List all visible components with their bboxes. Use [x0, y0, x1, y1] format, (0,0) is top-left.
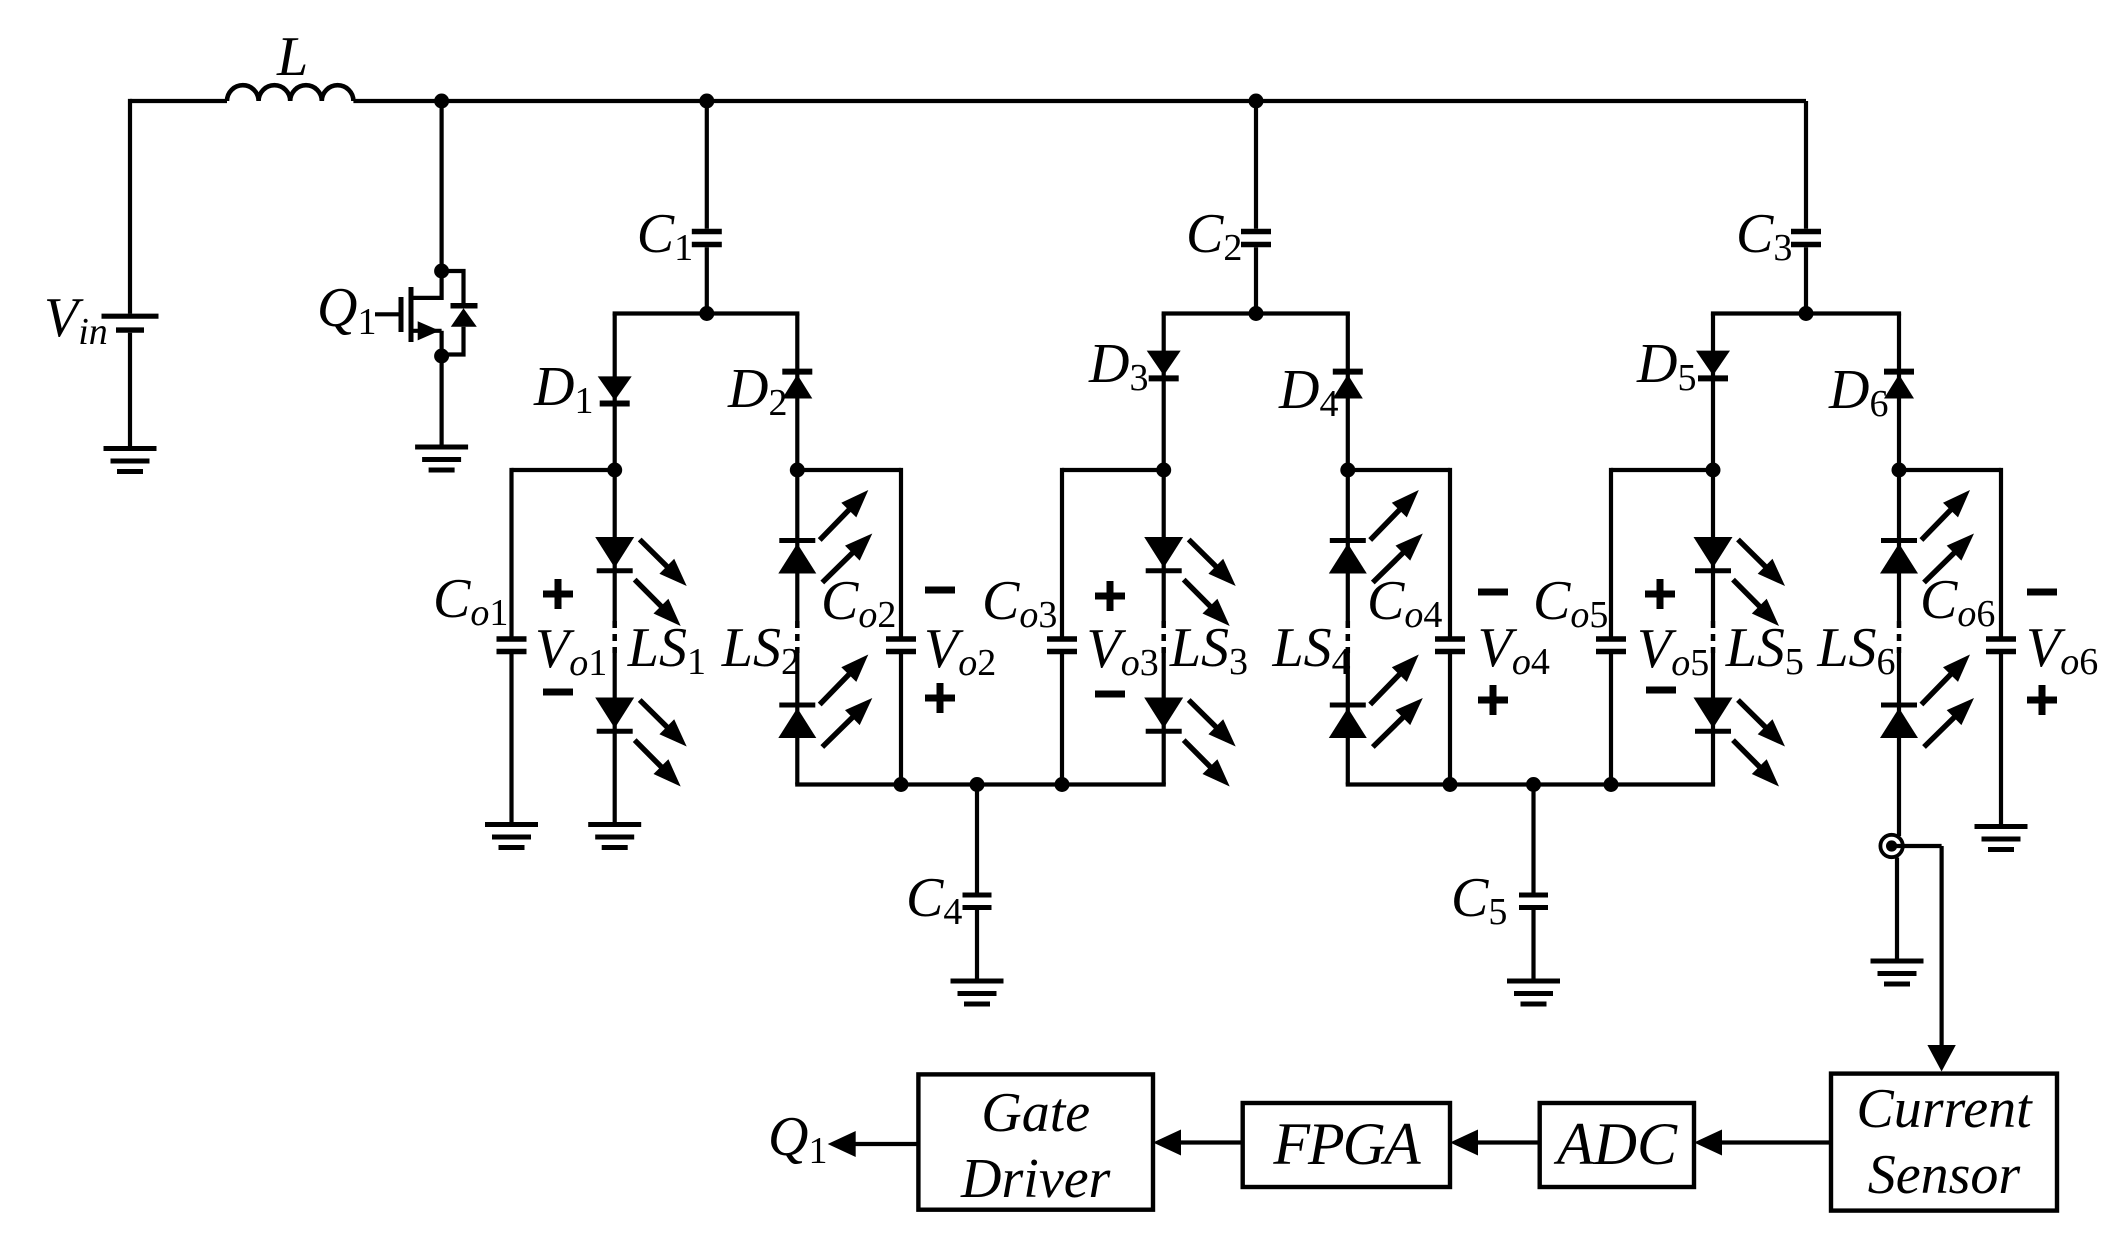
node Co4 bottom — [1443, 777, 1458, 792]
capacitor Co3 — [1047, 636, 1077, 642]
wire stub to Co2 — [797, 468, 901, 472]
node D5 output junction — [1706, 463, 1721, 478]
wire C1 bottom vertical — [705, 247, 709, 313]
ground LS1 — [588, 822, 641, 827]
wire Co6 vertical bottom — [1999, 652, 2003, 827]
LED LS5 lower — [1694, 698, 1733, 729]
capacitor C2 — [1241, 229, 1271, 235]
diode D2 — [782, 369, 812, 375]
node C5 tap — [1526, 777, 1541, 792]
wire stub to Co1 — [512, 468, 615, 472]
label Vo5 plus — [1645, 591, 1675, 598]
node D6 output junction — [1892, 463, 1907, 478]
label Vo2 plus — [925, 695, 955, 702]
wire LS3 string — [1162, 470, 1166, 621]
wire D6 branch vertical — [1897, 314, 1901, 471]
diode D1 — [598, 376, 632, 400]
node top junction C2 — [1249, 94, 1264, 109]
capacitor Co4 — [1435, 636, 1465, 642]
ground Q1 — [415, 445, 468, 450]
diode D6 — [1884, 369, 1914, 375]
wire C2 bottom vertical — [1254, 247, 1258, 313]
transistor Q1 — [375, 271, 478, 356]
LED LS1 upper — [595, 537, 634, 568]
node top junction Q1 — [434, 94, 449, 109]
wire D4 branch vertical — [1346, 314, 1350, 471]
wire D2 branch vertical — [795, 314, 799, 471]
wire stub to Co5 — [1611, 468, 1713, 472]
label Vo4 minus — [1478, 589, 1508, 596]
wire C3 bottom vertical — [1804, 247, 1808, 313]
node C2 bottom junction — [1249, 306, 1264, 321]
wire LS6 string — [1897, 470, 1901, 621]
svg-text:Sensor: Sensor — [1868, 1144, 2021, 1206]
wire bottom rail right — [1346, 782, 1715, 786]
block ADC box — [1540, 1103, 1694, 1187]
wire Co2 vertical bottom — [899, 652, 903, 785]
block Gate Driver box — [918, 1074, 1153, 1209]
label Vo3 minus — [1095, 691, 1125, 698]
ground Co6 — [1975, 824, 2028, 829]
capacitor C5 — [1519, 893, 1548, 898]
current sensor pickup circle — [1880, 835, 1902, 857]
node C3 bottom junction — [1799, 306, 1814, 321]
wire Co3 vertical top — [1060, 468, 1064, 639]
wire Vin vertical top — [128, 99, 132, 314]
svg-text:L: L — [276, 26, 308, 88]
node Q1 drain — [434, 264, 449, 279]
capacitor C1 — [692, 229, 722, 235]
wire Co3 vertical bottom — [1060, 652, 1064, 785]
label Vo3 plus — [1095, 593, 1125, 600]
svg-text:Driver: Driver — [960, 1148, 1111, 1210]
wire Co5 vertical top — [1609, 468, 1613, 639]
block Current Sensor box — [1831, 1074, 2057, 1211]
LED LS6 lower — [1881, 703, 1917, 708]
node Co3 bottom — [1055, 777, 1070, 792]
battery Vin — [102, 314, 159, 319]
LED LS4 upper — [1330, 538, 1366, 543]
node D2 output junction — [790, 463, 805, 478]
arrow Current Sensor to ADC — [1720, 1140, 1831, 1144]
wire LS4 string — [1346, 470, 1350, 621]
diode D4 — [1333, 369, 1363, 375]
wire pair rail section 1 — [613, 311, 800, 315]
wire D1 branch vertical — [613, 314, 617, 471]
label Vo6 plus — [2027, 697, 2057, 704]
wire pair rail section 3 — [1711, 311, 1901, 315]
arrow ADC to FPGA — [1476, 1140, 1540, 1144]
node top junction C1 — [699, 94, 714, 109]
wire Co5 vertical bottom — [1609, 652, 1613, 785]
node Q1 source — [434, 349, 449, 364]
wire Co4 vertical top — [1448, 468, 1452, 639]
wire C4 bottom vertical — [975, 908, 979, 982]
wire C5 top vertical — [1531, 785, 1535, 896]
node Co5 bottom — [1604, 777, 1619, 792]
node C4 tap — [970, 777, 985, 792]
wire pair rail section 2 — [1162, 311, 1350, 315]
wire stub to Co4 — [1348, 468, 1450, 472]
node Co2 bottom — [894, 777, 909, 792]
ground Vin — [104, 446, 157, 451]
wire Q1 drain vertical — [440, 101, 444, 271]
LED LS1 lower — [595, 698, 634, 729]
arrow Gate Driver to Q1 — [854, 1142, 919, 1146]
wire Co4 vertical bottom — [1448, 652, 1452, 785]
wire LS6 below sensor — [1895, 858, 1899, 962]
diode D5 — [1696, 351, 1730, 376]
LED LS2 lower — [779, 703, 815, 708]
node C1 bottom junction — [699, 306, 714, 321]
capacitor Co5 — [1596, 636, 1626, 642]
svg-text:ADC: ADC — [1553, 1111, 1678, 1177]
wire Q1 source to ground — [440, 356, 444, 447]
wire Co1 vertical bottom — [509, 652, 513, 825]
ground C4 — [951, 979, 1004, 984]
LED LS4 lower — [1330, 703, 1366, 708]
wire stub to Co6 — [1899, 468, 2001, 472]
node D3 output junction — [1156, 463, 1171, 478]
LED LS3 upper — [1144, 537, 1183, 568]
node D1 output junction — [607, 463, 622, 478]
wire LS1 string — [613, 470, 617, 621]
LED LS3 lower — [1144, 698, 1183, 729]
node D4 output junction — [1340, 463, 1355, 478]
LED LS2 upper — [779, 538, 815, 543]
ground LS6 — [1871, 959, 1924, 964]
label Vo4 plus — [1478, 697, 1508, 704]
capacitor Co1 — [497, 636, 527, 642]
wire Co6 vertical top — [1999, 468, 2003, 639]
wire Co1 vertical top — [509, 468, 513, 639]
label Vo5 minus — [1646, 687, 1676, 694]
inductor L — [227, 85, 353, 101]
wire LS5 string — [1711, 470, 1715, 621]
LED LS5 upper — [1694, 537, 1733, 568]
wire LS2 string — [795, 470, 799, 621]
wire C2 top vertical — [1254, 101, 1258, 229]
wire C4 top vertical — [975, 785, 979, 896]
wire stub to Co3 — [1062, 468, 1164, 472]
wire sensor tap horizontal — [1892, 844, 1942, 848]
capacitor Co2 — [886, 636, 916, 642]
wire D3 branch vertical — [1162, 314, 1166, 471]
label Vo2 minus — [925, 587, 955, 594]
ground C5 — [1507, 979, 1560, 984]
wire bottom rail left — [795, 782, 1166, 786]
svg-text:Gate: Gate — [981, 1082, 1090, 1144]
wire D5 branch vertical — [1711, 314, 1715, 471]
arrow FPGA to Gate Driver — [1179, 1140, 1243, 1144]
wire top rail left — [130, 99, 227, 103]
wire sensor tap vertical with arrow into Current Sensor — [1939, 846, 1943, 1047]
svg-text:FPGA: FPGA — [1272, 1111, 1421, 1177]
capacitor Co6 — [1986, 636, 2016, 642]
LED LS6 upper — [1881, 538, 1917, 543]
wire C5 bottom vertical — [1531, 908, 1535, 982]
ground Co1 — [485, 822, 538, 827]
label Vo6 minus — [2027, 589, 2057, 596]
block FPGA box — [1243, 1103, 1450, 1187]
wire C1 top vertical — [705, 101, 709, 229]
svg-text:Current: Current — [1856, 1078, 2033, 1140]
wire Co2 vertical top — [899, 468, 903, 639]
label Vo1 plus — [543, 591, 573, 598]
diode D3 — [1147, 351, 1181, 376]
wire top rail — [353, 99, 1806, 103]
wire Vin vertical bottom — [128, 333, 132, 449]
capacitor C3 — [1791, 229, 1821, 235]
label Vo1 minus — [543, 689, 573, 696]
capacitor C4 — [963, 893, 992, 898]
wire C3 top vertical — [1804, 101, 1808, 229]
